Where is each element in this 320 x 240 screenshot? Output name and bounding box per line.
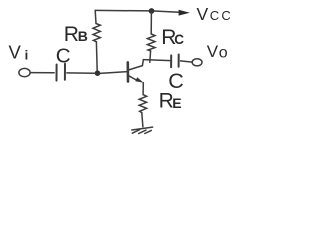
label Vcc (197, 4, 233, 24)
node Vo output terminal (192, 59, 202, 66)
svg-text:V: V (9, 42, 22, 63)
svg-text:V: V (207, 42, 219, 61)
svg-text:i: i (25, 47, 29, 62)
svg-text:R: R (64, 23, 79, 46)
wire Vcc top rail (95, 10, 179, 12)
wire base node to transistor base (100, 72, 127, 74)
svg-text:B: B (78, 28, 88, 44)
node junction dot top rail / RC (149, 8, 155, 14)
svg-text:CC: CC (210, 8, 233, 23)
ground (132, 127, 153, 133)
svg-text:E: E (172, 95, 181, 111)
wire collector step up (142, 60, 143, 66)
wire C to Vo (181, 61, 193, 62)
capacitor C output (171, 55, 179, 68)
wire emitter to RE (142, 83, 144, 95)
svg-text:C: C (174, 32, 184, 47)
wire C to base node (67, 72, 95, 74)
label RE (159, 90, 182, 113)
node junction dot base (95, 70, 101, 76)
wire collector to output capacitor (143, 60, 170, 61)
node Vi input terminal (19, 68, 30, 76)
svg-text:V: V (197, 4, 209, 24)
label Vi (9, 42, 29, 63)
resistor RB (93, 10, 100, 71)
label Vo (207, 42, 228, 61)
label RC (161, 26, 184, 49)
capacitor C input (57, 64, 66, 81)
svg-text:C: C (56, 45, 71, 68)
resistor RC (147, 13, 155, 63)
svg-text:o: o (219, 44, 228, 61)
wire Vi to C (30, 72, 54, 74)
label RB (64, 23, 88, 46)
resistor RE (139, 95, 146, 127)
Vcc arrowhead (179, 10, 190, 16)
transistor Q1 (128, 62, 144, 82)
